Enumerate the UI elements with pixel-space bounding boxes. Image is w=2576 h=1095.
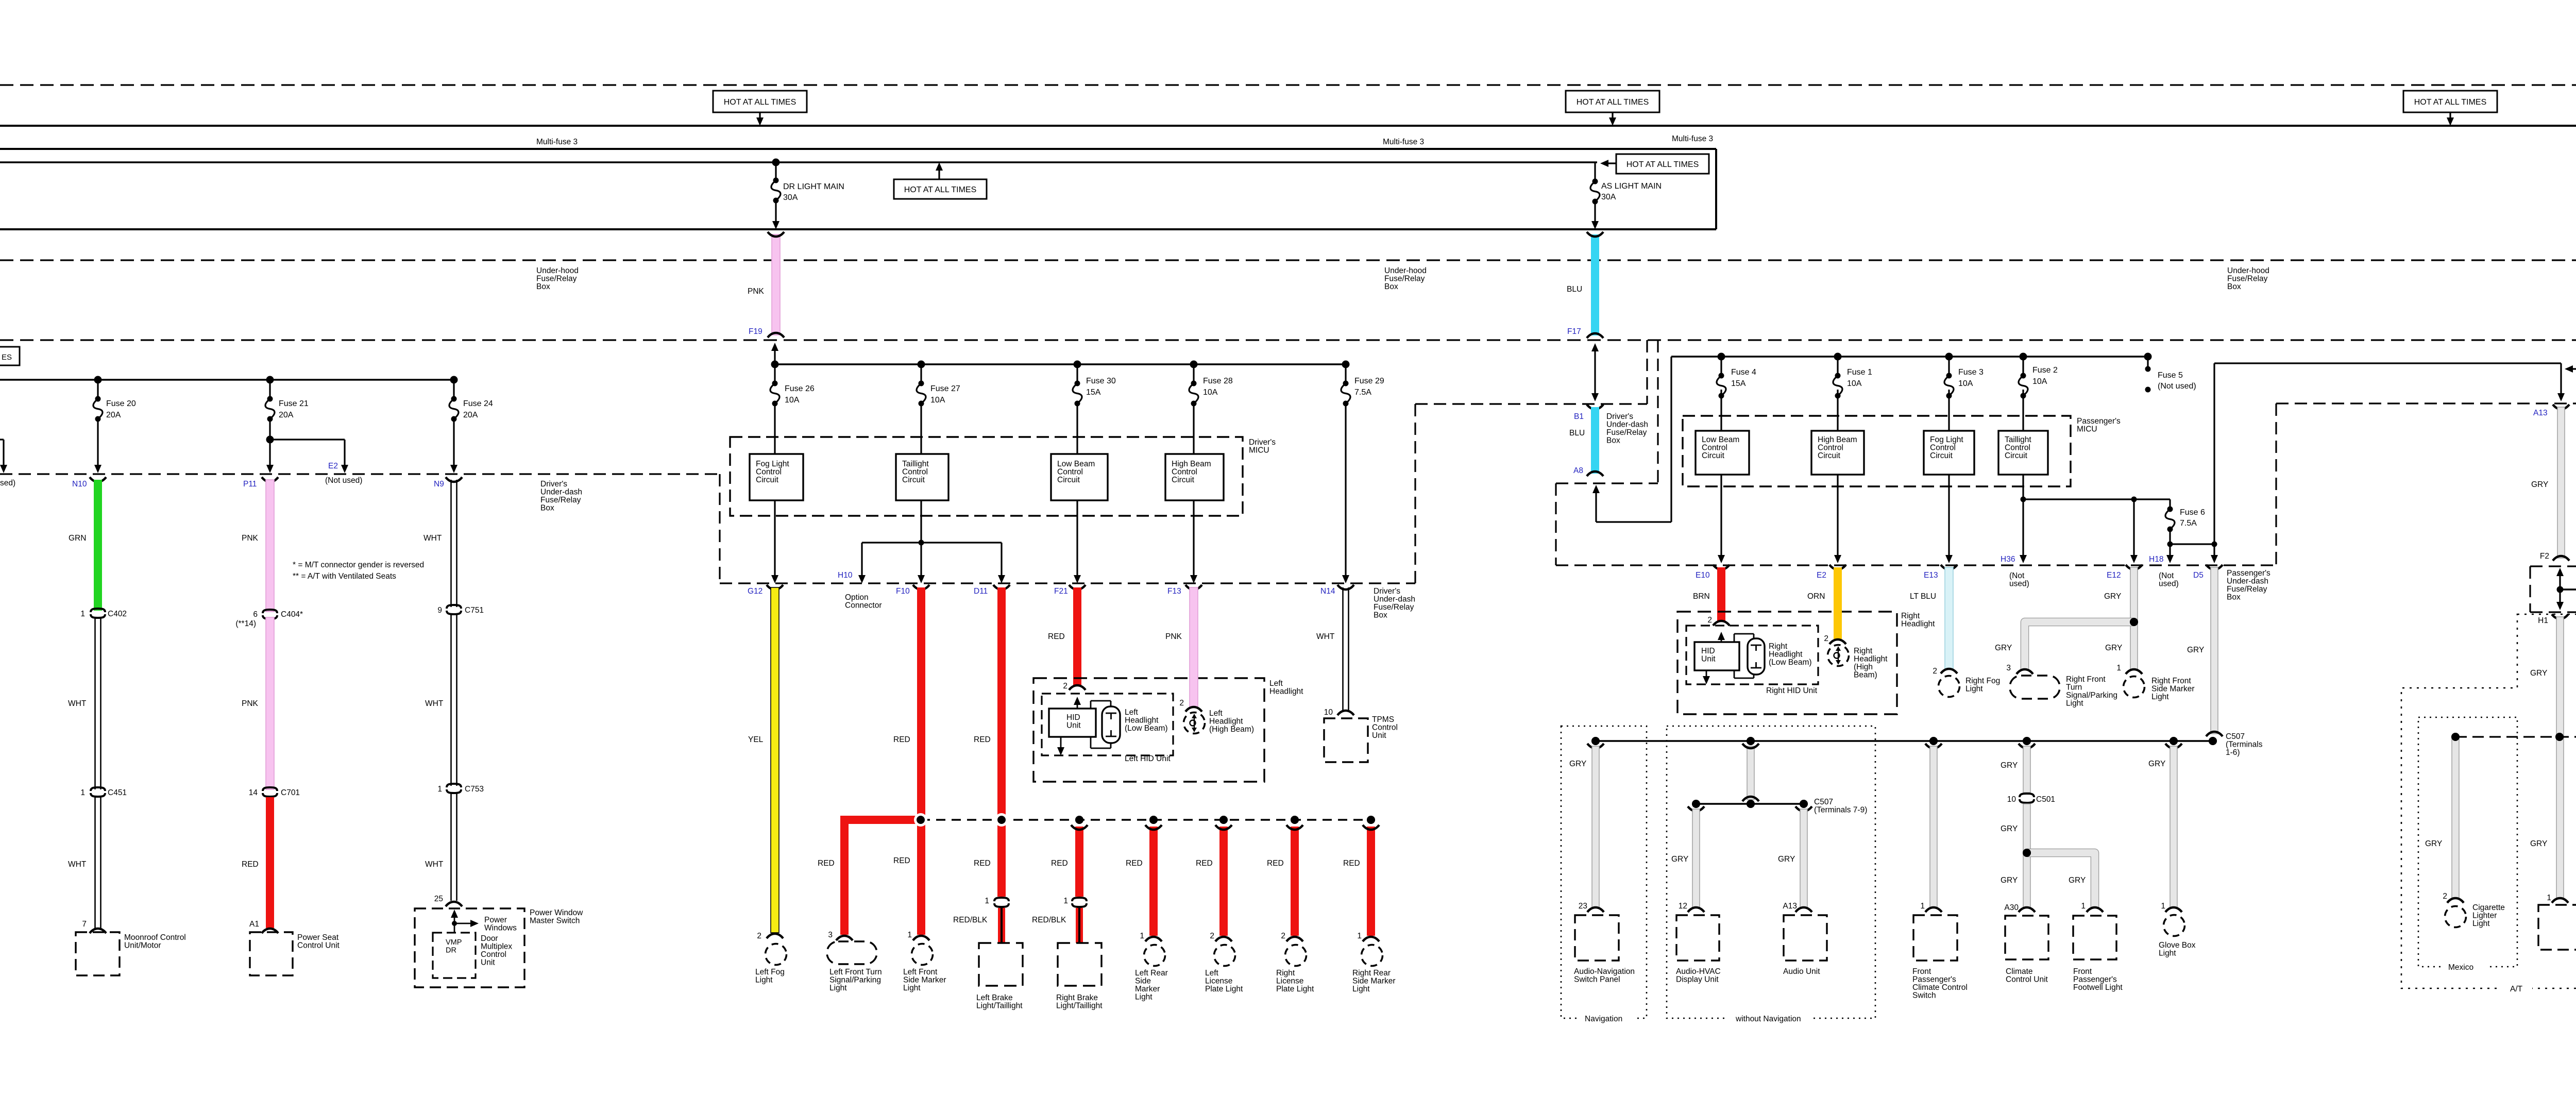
svg-text:License: License — [1276, 977, 1303, 986]
svg-text:Box: Box — [1384, 282, 1398, 291]
svg-text:(Terminals 7-9): (Terminals 7-9) — [1814, 806, 1867, 815]
svg-text:Control: Control — [1818, 444, 1843, 452]
svg-text:used): used) — [2009, 580, 2029, 588]
svg-text:Under-dash: Under-dash — [2227, 577, 2268, 586]
svg-text:Fuse 2: Fuse 2 — [2032, 366, 2058, 375]
svg-text:Left Rear: Left Rear — [1135, 969, 1168, 978]
svg-text:Audio Unit: Audio Unit — [1783, 967, 1820, 976]
svg-text:Under-dash: Under-dash — [540, 488, 582, 497]
svg-text:10: 10 — [1324, 708, 1333, 717]
svg-text:Circuit: Circuit — [756, 476, 779, 484]
svg-text:Fuse 21: Fuse 21 — [279, 399, 309, 408]
svg-text:GRY: GRY — [1778, 855, 1795, 864]
svg-text:F2: F2 — [2540, 552, 2549, 561]
svg-text:H1: H1 — [2538, 616, 2548, 625]
svg-text:PNK: PNK — [242, 699, 259, 708]
svg-text:Right: Right — [1854, 647, 1873, 655]
svg-text:Front: Front — [2073, 967, 2092, 976]
svg-text:30A: 30A — [1601, 193, 1616, 201]
svg-text:Control: Control — [756, 468, 782, 477]
svg-text:Taillight: Taillight — [902, 460, 929, 468]
svg-text:Left HID Unit: Left HID Unit — [1125, 754, 1171, 763]
svg-text:Fuse 6: Fuse 6 — [2180, 508, 2205, 517]
svg-text:GRY: GRY — [2105, 644, 2122, 652]
svg-text:RED: RED — [1126, 859, 1143, 868]
svg-text:Master Switch: Master Switch — [530, 917, 580, 925]
svg-text:1: 1 — [80, 788, 85, 797]
svg-text:3: 3 — [2006, 664, 2011, 672]
svg-text:10A: 10A — [785, 396, 800, 405]
svg-text:12: 12 — [1679, 902, 1687, 911]
svg-text:Side Marker: Side Marker — [1352, 977, 1396, 986]
svg-text:2: 2 — [1281, 932, 1285, 940]
svg-text:Light: Light — [2151, 693, 2169, 701]
svg-text:Box: Box — [1374, 611, 1387, 620]
svg-text:Headlight: Headlight — [1854, 655, 1888, 664]
svg-text:7.5A: 7.5A — [1354, 388, 1371, 397]
svg-text:1: 1 — [1357, 932, 1362, 940]
svg-text:GRY: GRY — [2104, 592, 2121, 601]
svg-text:BRN: BRN — [1693, 592, 1710, 601]
svg-text:WHT: WHT — [68, 699, 87, 708]
svg-text:WHT: WHT — [1316, 632, 1335, 641]
svg-text:Left: Left — [1125, 708, 1139, 717]
svg-text:WHT: WHT — [423, 534, 442, 543]
svg-text:GRY: GRY — [2001, 876, 2018, 885]
svg-text:Multi-fuse 3: Multi-fuse 3 — [1383, 138, 1424, 146]
svg-text:Left: Left — [1205, 969, 1219, 978]
svg-text:E2: E2 — [328, 462, 338, 470]
svg-text:C507: C507 — [2226, 732, 2245, 741]
svg-text:A13: A13 — [2533, 409, 2548, 417]
svg-text:Light: Light — [1352, 985, 1370, 993]
svg-text:Low Beam: Low Beam — [1702, 435, 1739, 444]
svg-text:Unit: Unit — [1066, 721, 1081, 730]
svg-text:Power Window: Power Window — [530, 908, 583, 917]
svg-text:LT BLU: LT BLU — [1910, 592, 1936, 601]
svg-text:GRN: GRN — [69, 534, 86, 543]
svg-text:Fuse 5: Fuse 5 — [2158, 371, 2183, 380]
svg-text:DR LIGHT MAIN: DR LIGHT MAIN — [783, 182, 844, 191]
svg-text:Control: Control — [2005, 444, 2030, 452]
svg-text:Switch Panel: Switch Panel — [1574, 975, 1620, 984]
svg-text:** = A/T with Ventilated Seat: ** = A/T with Ventilated Seats — [293, 572, 396, 581]
svg-text:1: 1 — [1063, 897, 1068, 905]
svg-text:Under-dash: Under-dash — [1606, 420, 1648, 429]
svg-text:Driver's: Driver's — [1606, 412, 1633, 421]
svg-text:Fuse 26: Fuse 26 — [785, 384, 815, 393]
svg-text:(Not used): (Not used) — [2158, 382, 2196, 391]
svg-text:Power: Power — [484, 916, 507, 924]
svg-text:without Navigation: without Navigation — [1735, 1015, 1801, 1023]
svg-text:Low Beam: Low Beam — [1057, 460, 1095, 468]
svg-text:D5: D5 — [2193, 571, 2204, 580]
svg-text:VMP: VMP — [446, 938, 462, 947]
svg-text:Fuse 28: Fuse 28 — [1203, 377, 1233, 385]
svg-text:2: 2 — [2443, 892, 2447, 901]
svg-text:Fuse 3: Fuse 3 — [1958, 368, 1984, 377]
svg-text:(Not: (Not — [2159, 571, 2174, 580]
svg-text:1: 1 — [437, 785, 442, 794]
svg-text:Right Front: Right Front — [2151, 677, 2191, 685]
svg-text:(Terminals: (Terminals — [2226, 740, 2263, 749]
svg-text:7.5A: 7.5A — [2180, 519, 2197, 528]
svg-text:Under-dash: Under-dash — [1374, 595, 1415, 604]
svg-text:HID: HID — [1701, 647, 1715, 655]
svg-text:20A: 20A — [279, 411, 294, 419]
svg-text:10A: 10A — [1847, 379, 1862, 388]
svg-text:Multi-fuse 3: Multi-fuse 3 — [1672, 134, 1713, 143]
svg-text:(Not used): (Not used) — [325, 476, 362, 485]
svg-text:Circuit: Circuit — [2005, 451, 2028, 460]
svg-text:20A: 20A — [463, 411, 478, 419]
svg-text:Plate Light: Plate Light — [1205, 985, 1243, 993]
svg-text:Light/Taillight: Light/Taillight — [1056, 1002, 1103, 1010]
svg-text:Passenger's: Passenger's — [2077, 417, 2121, 426]
svg-text:Headlight: Headlight — [1269, 687, 1303, 696]
svg-text:PNK: PNK — [1165, 632, 1182, 641]
svg-text:GRY: GRY — [2001, 761, 2018, 770]
svg-text:Audio-HVAC: Audio-HVAC — [1676, 967, 1721, 976]
svg-text:WHT: WHT — [425, 699, 444, 708]
svg-text:Fuse/Relay: Fuse/Relay — [540, 496, 581, 504]
svg-text:GRY: GRY — [2001, 824, 2018, 833]
svg-text:RED: RED — [893, 856, 910, 865]
svg-text:GRY: GRY — [2530, 839, 2547, 848]
svg-text:PNK: PNK — [748, 287, 765, 296]
svg-text:1: 1 — [2116, 664, 2121, 672]
svg-text:C404*: C404* — [281, 610, 303, 619]
svg-text:Footwell Light: Footwell Light — [2073, 983, 2123, 992]
svg-text:PNK: PNK — [242, 534, 259, 543]
svg-text:15A: 15A — [1086, 388, 1101, 397]
svg-text:C701: C701 — [281, 788, 300, 797]
svg-text:Right: Right — [1276, 969, 1295, 978]
svg-text:Connector: Connector — [845, 601, 882, 610]
svg-text:Control: Control — [902, 468, 928, 477]
svg-text:Left: Left — [1269, 679, 1283, 688]
svg-text:1: 1 — [2081, 902, 2086, 911]
svg-text:Circuit: Circuit — [1930, 451, 1953, 460]
svg-text:10A: 10A — [1203, 388, 1218, 397]
svg-text:Left: Left — [1209, 709, 1223, 718]
svg-text:Fuse/Relay: Fuse/Relay — [2227, 585, 2267, 594]
svg-text:10: 10 — [2007, 795, 2016, 804]
svg-text:A1: A1 — [249, 920, 259, 929]
svg-text:Right HID Unit: Right HID Unit — [1766, 686, 1818, 695]
svg-text:Unit: Unit — [481, 958, 495, 967]
svg-text:RED: RED — [974, 735, 991, 744]
svg-text:Headlight: Headlight — [1769, 650, 1803, 659]
svg-text:High Beam: High Beam — [1172, 460, 1211, 468]
svg-text:MICU: MICU — [2077, 425, 2097, 434]
svg-text:Control: Control — [1930, 444, 1956, 452]
svg-text:6: 6 — [253, 610, 258, 619]
svg-text:A/T: A/T — [2510, 985, 2523, 993]
svg-text:Fuse/Relay: Fuse/Relay — [1606, 428, 1647, 437]
svg-text:Fuse/Relay: Fuse/Relay — [2227, 275, 2268, 283]
svg-text:RED: RED — [974, 859, 991, 868]
svg-text:BLU: BLU — [1567, 285, 1582, 294]
svg-text:RED: RED — [242, 860, 259, 869]
svg-text:(Not: (Not — [2009, 571, 2025, 580]
svg-text:Under-hood: Under-hood — [2227, 266, 2269, 275]
svg-text:1: 1 — [2547, 894, 2551, 902]
svg-text:F21: F21 — [1054, 587, 1068, 596]
svg-text:Light: Light — [2159, 949, 2176, 958]
svg-text:GRY: GRY — [1671, 855, 1688, 864]
svg-text:Circuit: Circuit — [1702, 451, 1725, 460]
svg-text:F10: F10 — [896, 587, 910, 596]
svg-text:ES: ES — [2, 353, 12, 362]
svg-text:E2: E2 — [1817, 571, 1826, 580]
svg-text:9: 9 — [437, 606, 442, 615]
svg-text:Fuse 1: Fuse 1 — [1847, 368, 1872, 377]
svg-text:C753: C753 — [465, 785, 484, 794]
svg-text:Light/Taillight: Light/Taillight — [976, 1002, 1023, 1010]
svg-text:1: 1 — [1140, 932, 1144, 940]
svg-text:Unit: Unit — [1701, 655, 1716, 664]
svg-text:RED: RED — [1343, 859, 1360, 868]
svg-text:Cigarette: Cigarette — [2472, 903, 2505, 912]
svg-text:MICU: MICU — [1249, 446, 1269, 455]
svg-text:HOT AT ALL TIMES: HOT AT ALL TIMES — [1577, 98, 1649, 107]
svg-text:Fuse 24: Fuse 24 — [463, 399, 493, 408]
svg-text:RED: RED — [1267, 859, 1284, 868]
svg-text:Circuit: Circuit — [1057, 476, 1080, 484]
svg-text:C507: C507 — [1814, 798, 1833, 806]
svg-text:Box: Box — [2227, 282, 2241, 291]
svg-text:Box: Box — [2227, 593, 2241, 602]
svg-text:Control: Control — [481, 950, 506, 959]
svg-text:N14: N14 — [1320, 587, 1335, 596]
svg-text:14: 14 — [249, 788, 258, 797]
svg-text:Moonroof Control: Moonroof Control — [124, 933, 186, 942]
svg-text:G12: G12 — [748, 587, 762, 596]
svg-text:1: 1 — [985, 897, 989, 905]
svg-text:B1: B1 — [1574, 412, 1584, 421]
svg-text:Switch: Switch — [1912, 991, 1936, 1000]
svg-text:Circuit: Circuit — [1818, 451, 1841, 460]
svg-text:1: 1 — [80, 610, 85, 618]
svg-text:C402: C402 — [108, 610, 127, 618]
svg-text:1: 1 — [907, 931, 912, 939]
svg-text:Fuse/Relay: Fuse/Relay — [1374, 603, 1414, 612]
svg-text:Multiplex: Multiplex — [481, 942, 512, 951]
svg-text:H36: H36 — [2001, 555, 2015, 564]
svg-text:Passenger's: Passenger's — [2227, 569, 2270, 578]
svg-text:Right: Right — [1901, 612, 1920, 620]
svg-text:Signal/Parking: Signal/Parking — [829, 976, 881, 985]
svg-text:Headlight: Headlight — [1209, 717, 1243, 726]
svg-text:Unit: Unit — [1372, 731, 1386, 740]
svg-text:Left Brake: Left Brake — [976, 993, 1013, 1002]
svg-text:Taillight: Taillight — [2005, 435, 2031, 444]
svg-text:2: 2 — [1933, 667, 1937, 676]
svg-text:F19: F19 — [749, 327, 762, 336]
svg-text:RED/BLK: RED/BLK — [1032, 916, 1066, 924]
svg-text:GRY: GRY — [1569, 760, 1586, 768]
svg-text:Control Unit: Control Unit — [297, 941, 340, 950]
svg-text:Side Marker: Side Marker — [2151, 685, 2195, 694]
svg-text:Control: Control — [1702, 444, 1727, 452]
svg-text:E13: E13 — [1924, 571, 1938, 580]
svg-text:used): used) — [2159, 580, 2179, 588]
svg-text:Light: Light — [1135, 993, 1153, 1002]
svg-text:HID: HID — [1066, 713, 1080, 722]
svg-text:A13: A13 — [1783, 902, 1797, 911]
svg-text:Signal/Parking: Signal/Parking — [2066, 691, 2117, 700]
svg-text:GRY: GRY — [2531, 480, 2548, 489]
svg-text:GRY: GRY — [2148, 760, 2165, 768]
svg-text:D11: D11 — [974, 587, 988, 596]
svg-text:BLU: BLU — [1569, 429, 1585, 437]
svg-text:HOT AT ALL TIMES: HOT AT ALL TIMES — [724, 98, 796, 107]
svg-text:(**14): (**14) — [235, 619, 256, 628]
svg-text:2: 2 — [1210, 932, 1214, 940]
svg-text:GRY: GRY — [2530, 669, 2547, 678]
svg-text:Light: Light — [2472, 919, 2490, 928]
svg-text:10A: 10A — [1958, 379, 1973, 388]
svg-text:Headlight: Headlight — [1125, 716, 1159, 725]
svg-text:RED: RED — [818, 859, 835, 868]
svg-text:Plate Light: Plate Light — [1276, 985, 1314, 993]
svg-text:Climate Control: Climate Control — [1912, 983, 1968, 992]
svg-text:10A: 10A — [930, 396, 945, 405]
svg-text:30A: 30A — [783, 193, 798, 202]
svg-text:2: 2 — [1824, 634, 1828, 643]
svg-text:Box: Box — [1606, 436, 1620, 445]
svg-text:HOT AT ALL TIMES: HOT AT ALL TIMES — [904, 186, 977, 194]
svg-text:3: 3 — [828, 931, 833, 939]
svg-text:C501: C501 — [2036, 795, 2055, 804]
svg-text:Door: Door — [481, 934, 498, 943]
svg-text:WHT: WHT — [68, 860, 87, 869]
svg-text:Fuse 30: Fuse 30 — [1086, 377, 1116, 385]
svg-text:Fuse 20: Fuse 20 — [106, 399, 136, 408]
svg-text:23: 23 — [1579, 902, 1587, 911]
svg-text:RED: RED — [1051, 859, 1068, 868]
svg-text:Power Seat: Power Seat — [297, 933, 339, 942]
svg-text:2: 2 — [1063, 682, 1067, 690]
svg-text:7: 7 — [82, 920, 87, 929]
svg-text:Left Front Turn: Left Front Turn — [829, 968, 882, 976]
svg-text:Side: Side — [1135, 977, 1151, 986]
svg-text:Audio-Navigation: Audio-Navigation — [1574, 967, 1635, 976]
svg-text:Left Fog: Left Fog — [755, 968, 785, 976]
svg-text:A8: A8 — [1573, 466, 1583, 475]
svg-text:TPMS: TPMS — [1372, 715, 1394, 724]
svg-text:(High: (High — [1854, 663, 1873, 671]
svg-text:1: 1 — [2161, 902, 2165, 911]
svg-text:YEL: YEL — [748, 735, 764, 744]
svg-text:Driver's: Driver's — [1249, 438, 1276, 447]
svg-text:A30: A30 — [2004, 903, 2019, 912]
svg-text:H18: H18 — [2149, 555, 2163, 564]
svg-text:H10: H10 — [838, 571, 853, 580]
svg-text:Circuit: Circuit — [1172, 476, 1195, 484]
svg-text:High Beam: High Beam — [1818, 435, 1857, 444]
svg-text:Front: Front — [1912, 967, 1931, 976]
svg-text:Marker: Marker — [1135, 985, 1160, 993]
svg-text:Left Front: Left Front — [903, 968, 938, 976]
svg-text:Glove Box: Glove Box — [2159, 941, 2196, 950]
svg-text:25: 25 — [434, 895, 443, 903]
svg-text:Fog Light: Fog Light — [756, 460, 789, 468]
svg-text:Side Marker: Side Marker — [903, 976, 946, 985]
svg-text:(Low Beam): (Low Beam) — [1125, 724, 1168, 733]
svg-text:RED: RED — [893, 735, 910, 744]
svg-text:Turn: Turn — [2066, 683, 2082, 692]
svg-text:Driver's: Driver's — [540, 480, 567, 488]
svg-text:Light: Light — [903, 984, 921, 992]
svg-text:RED: RED — [1048, 632, 1065, 641]
svg-text:Right Rear: Right Rear — [1352, 969, 1391, 978]
svg-text:GRY: GRY — [1995, 644, 2012, 652]
svg-text:Right Brake: Right Brake — [1056, 993, 1098, 1002]
svg-text:Option: Option — [845, 593, 869, 602]
svg-text:P11: P11 — [243, 480, 257, 488]
svg-text:AS LIGHT MAIN: AS LIGHT MAIN — [1601, 182, 1662, 191]
svg-text:Control: Control — [1372, 723, 1398, 732]
svg-text:Fuse 27: Fuse 27 — [930, 384, 960, 393]
svg-text:Driver's: Driver's — [1374, 587, 1400, 596]
svg-text:Mexico: Mexico — [2448, 963, 2473, 972]
svg-text:(Low Beam): (Low Beam) — [1769, 658, 1812, 667]
svg-text:sed): sed) — [0, 479, 15, 487]
svg-text:F13: F13 — [1167, 587, 1181, 596]
svg-text:* = M/T connector gender is: * = M/T connector gender is reversed — [293, 561, 424, 569]
svg-text:Right Fog: Right Fog — [1965, 677, 2000, 685]
svg-text:Climate: Climate — [2006, 967, 2033, 976]
svg-text:Fuse 29: Fuse 29 — [1354, 377, 1384, 385]
svg-text:License: License — [1205, 977, 1232, 986]
svg-text:RED: RED — [1196, 859, 1213, 868]
svg-text:1: 1 — [1920, 902, 1925, 911]
svg-text:F17: F17 — [1567, 327, 1581, 336]
svg-text:Light: Light — [1965, 685, 1983, 694]
svg-text:(High Beam): (High Beam) — [1209, 725, 1254, 734]
svg-text:Box: Box — [536, 282, 550, 291]
svg-text:Display Unit: Display Unit — [1676, 975, 1719, 984]
svg-text:Fog Light: Fog Light — [1930, 435, 1963, 444]
svg-text:C751: C751 — [465, 606, 484, 615]
svg-text:2: 2 — [1707, 616, 1712, 625]
svg-text:HOT AT ALL TIMES: HOT AT ALL TIMES — [1626, 160, 1699, 169]
svg-text:WHT: WHT — [425, 860, 444, 869]
svg-text:Circuit: Circuit — [902, 476, 925, 484]
svg-text:Headlight: Headlight — [1901, 620, 1935, 629]
svg-text:Light: Light — [755, 976, 773, 985]
svg-text:Beam): Beam) — [1854, 671, 1877, 680]
svg-text:Windows: Windows — [484, 924, 517, 933]
svg-text:Light: Light — [829, 984, 847, 992]
svg-text:Control: Control — [1057, 468, 1083, 477]
svg-text:Navigation: Navigation — [1585, 1015, 1622, 1023]
svg-text:Fuse/Relay: Fuse/Relay — [1384, 275, 1425, 283]
svg-text:Control Unit: Control Unit — [2006, 975, 2048, 984]
svg-text:C451: C451 — [108, 788, 127, 797]
svg-text:2: 2 — [757, 932, 761, 940]
svg-text:Unit/Motor: Unit/Motor — [124, 941, 161, 950]
svg-text:Multi-fuse 3: Multi-fuse 3 — [536, 138, 578, 146]
svg-text:HOT AT ALL TIMES: HOT AT ALL TIMES — [2414, 98, 2487, 107]
svg-text:N10: N10 — [72, 480, 87, 488]
svg-text:Lighter: Lighter — [2472, 912, 2497, 920]
svg-text:E10: E10 — [1696, 571, 1710, 580]
svg-text:20A: 20A — [106, 411, 121, 419]
svg-text:Under-hood: Under-hood — [536, 266, 579, 275]
